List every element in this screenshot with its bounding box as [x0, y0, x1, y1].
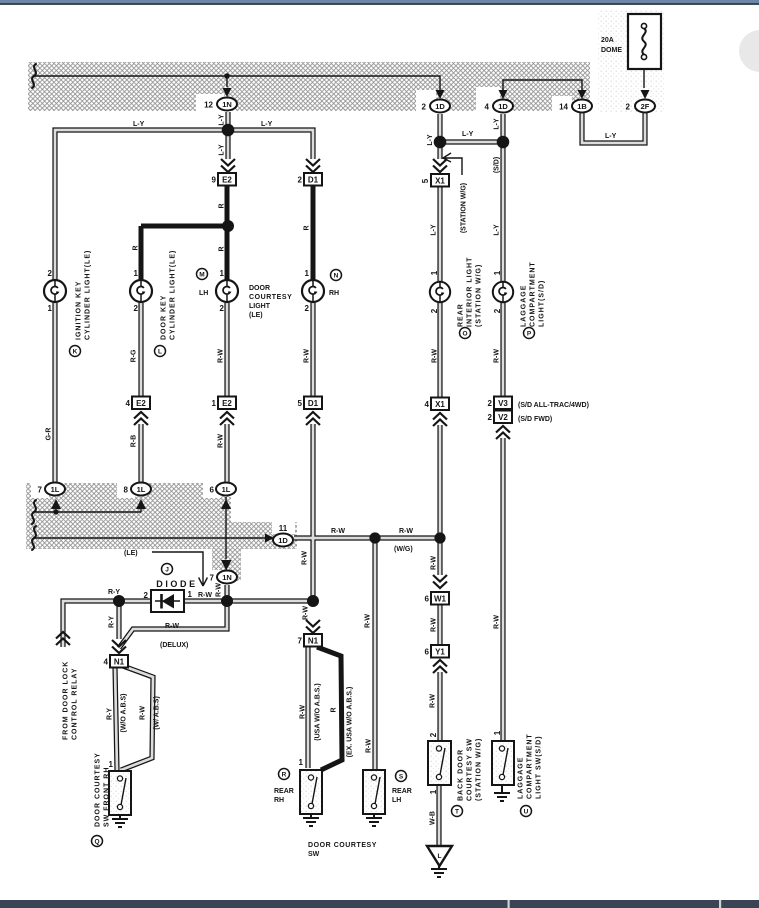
svg-text:(USA W/O A.B.S.): (USA W/O A.B.S.): [315, 683, 322, 740]
svg-text:R: R: [219, 203, 226, 208]
svg-text:(S/D FWD): (S/D FWD): [518, 416, 552, 423]
svg-text:SW: SW: [308, 851, 320, 858]
svg-text:COMPARTMENT: COMPARTMENT: [527, 733, 534, 799]
svg-text:2: 2: [430, 308, 439, 313]
svg-text:E2: E2: [136, 399, 146, 408]
svg-text:2: 2: [134, 304, 139, 313]
svg-text:M: M: [199, 272, 204, 279]
svg-text:1: 1: [299, 758, 304, 767]
svg-text:COURTESY SW: COURTESY SW: [467, 738, 474, 801]
svg-text:R-W: R-W: [431, 556, 438, 570]
svg-text:R-W: R-W: [303, 606, 310, 620]
svg-text:(DELUX): (DELUX): [160, 642, 188, 649]
svg-text:U: U: [524, 809, 529, 816]
svg-text:P: P: [527, 331, 532, 338]
svg-text:20A: 20A: [601, 37, 614, 44]
svg-text:CYLINDER LIGHT(LE): CYLINDER LIGHT(LE): [170, 250, 177, 340]
svg-text:1: 1: [305, 269, 310, 278]
svg-text:5: 5: [298, 399, 303, 408]
svg-text:LAGGAGE: LAGGAGE: [518, 757, 525, 799]
svg-text:14: 14: [559, 103, 568, 112]
svg-text:(LE): (LE): [124, 550, 138, 557]
svg-text:L-Y: L-Y: [219, 114, 226, 126]
svg-text:1B: 1B: [577, 102, 587, 111]
svg-text:(STATION W/G): (STATION W/G): [461, 183, 468, 233]
svg-text:K: K: [73, 349, 78, 356]
svg-text:7: 7: [210, 574, 215, 583]
svg-text:R-Y: R-Y: [108, 589, 120, 596]
svg-text:R: R: [304, 225, 311, 230]
svg-text:V3: V3: [498, 399, 508, 408]
svg-text:DOOR COURTESY: DOOR COURTESY: [308, 842, 377, 849]
svg-text:L: L: [438, 853, 442, 860]
svg-text:R-W: R-W: [218, 434, 225, 448]
svg-text:N1: N1: [308, 637, 319, 646]
svg-text:R-W: R-W: [365, 614, 372, 628]
svg-text:6: 6: [425, 595, 430, 604]
svg-text:R-W: R-W: [302, 551, 309, 565]
svg-text:LIGHT(S/D): LIGHT(S/D): [539, 280, 546, 327]
svg-text:LIGHT SW(S/D): LIGHT SW(S/D): [536, 735, 543, 799]
svg-text:1D: 1D: [498, 102, 508, 111]
svg-text:1: 1: [493, 270, 502, 275]
svg-text:4: 4: [126, 399, 131, 408]
svg-text:FROM DOOR LOCK: FROM DOOR LOCK: [63, 661, 70, 740]
svg-text:R-Y: R-Y: [107, 708, 114, 720]
svg-text:2F: 2F: [641, 102, 650, 111]
svg-text:LIGHT: LIGHT: [249, 303, 271, 310]
svg-text:S: S: [399, 774, 404, 781]
svg-text:L: L: [158, 349, 162, 356]
svg-text:11: 11: [279, 524, 288, 533]
svg-text:2: 2: [626, 103, 631, 112]
svg-text:SW FRONT RH: SW FRONT RH: [104, 767, 111, 827]
svg-text:2: 2: [488, 399, 493, 408]
svg-text:6: 6: [210, 486, 215, 495]
svg-text:1: 1: [134, 269, 139, 278]
svg-text:CYLINDER LIGHT(LE): CYLINDER LIGHT(LE): [85, 250, 92, 340]
svg-text:R: R: [219, 246, 226, 251]
svg-text:L-Y: L-Y: [431, 224, 438, 236]
svg-text:1: 1: [188, 590, 193, 599]
svg-text:L-Y: L-Y: [133, 121, 145, 128]
svg-text:R-W: R-W: [331, 528, 345, 535]
svg-text:4: 4: [425, 400, 430, 409]
svg-text:12: 12: [204, 101, 213, 110]
svg-text:2: 2: [48, 269, 53, 278]
svg-text:1D: 1D: [435, 102, 445, 111]
svg-text:2: 2: [298, 176, 303, 185]
svg-text:2: 2: [429, 732, 438, 737]
svg-text:2: 2: [144, 591, 149, 600]
svg-text:(S/D ALL-TRAC/4WD): (S/D ALL-TRAC/4WD): [518, 402, 589, 409]
svg-text:7: 7: [298, 637, 303, 646]
svg-text:1N: 1N: [222, 573, 232, 582]
svg-text:7: 7: [38, 486, 43, 495]
svg-text:L-Y: L-Y: [605, 133, 617, 140]
svg-text:9: 9: [212, 176, 217, 185]
svg-text:(W/O A.B.S): (W/O A.B.S): [121, 693, 128, 732]
svg-text:R-Y: R-Y: [109, 616, 116, 628]
svg-text:LAGGAGE: LAGGAGE: [521, 285, 528, 327]
svg-text:(STATION W/G): (STATION W/G): [476, 738, 483, 801]
svg-text:INTERIOR LIGHT: INTERIOR LIGHT: [467, 257, 474, 327]
svg-text:Y1: Y1: [435, 648, 445, 657]
svg-text:DOOR COURTESY: DOOR COURTESY: [95, 752, 102, 827]
svg-text:1: 1: [220, 269, 225, 278]
svg-text:R-W: R-W: [399, 528, 413, 535]
svg-text:D1: D1: [308, 176, 319, 185]
svg-text:DOOR: DOOR: [249, 285, 270, 292]
svg-text:R: R: [282, 772, 287, 779]
svg-text:1N: 1N: [222, 100, 232, 109]
svg-text:T: T: [455, 809, 459, 816]
svg-text:2: 2: [493, 308, 502, 313]
svg-text:N1: N1: [114, 658, 125, 667]
svg-text:1: 1: [493, 730, 502, 735]
svg-text:X1: X1: [435, 400, 445, 409]
svg-text:CONTROL RELAY: CONTROL RELAY: [72, 667, 79, 740]
svg-text:R-W: R-W: [216, 583, 223, 597]
svg-text:E2: E2: [222, 176, 232, 185]
svg-text:1: 1: [212, 399, 217, 408]
svg-text:R-W: R-W: [432, 349, 439, 363]
svg-text:8: 8: [124, 486, 129, 495]
svg-text:R-W: R-W: [140, 706, 147, 720]
svg-text:R-W: R-W: [494, 615, 501, 629]
svg-text:4: 4: [104, 658, 109, 667]
svg-text:5: 5: [421, 178, 430, 183]
svg-text:R-W: R-W: [300, 705, 307, 719]
svg-text:V2: V2: [498, 413, 508, 422]
svg-text:R-W: R-W: [430, 694, 437, 708]
svg-text:O: O: [462, 331, 467, 338]
svg-text:R-W: R-W: [431, 618, 438, 632]
svg-text:R-G: R-G: [131, 349, 138, 362]
svg-text:RH: RH: [274, 797, 284, 804]
svg-text:2: 2: [305, 304, 310, 313]
svg-text:L-Y: L-Y: [494, 224, 501, 236]
svg-text:(W/ A.B.S): (W/ A.B.S): [154, 696, 161, 730]
svg-text:BACK DOOR: BACK DOOR: [458, 749, 465, 801]
svg-text:D1: D1: [308, 399, 319, 408]
svg-text:L-Y: L-Y: [427, 134, 434, 146]
svg-text:RH: RH: [329, 290, 339, 297]
svg-text:1: 1: [429, 789, 438, 794]
svg-text:R-W: R-W: [198, 592, 212, 599]
svg-text:W1: W1: [434, 595, 447, 604]
svg-text:DOME: DOME: [601, 47, 622, 54]
svg-text:N: N: [334, 273, 339, 280]
svg-text:G-R: G-R: [46, 428, 53, 441]
svg-text:R-W: R-W: [165, 623, 179, 630]
svg-text:COURTESY: COURTESY: [249, 294, 292, 301]
svg-text:(STATION W/G): (STATION W/G): [476, 264, 483, 327]
svg-text:E2: E2: [222, 399, 232, 408]
svg-text:X1: X1: [435, 177, 445, 186]
svg-text:R-W: R-W: [494, 349, 501, 363]
svg-text:1L: 1L: [51, 485, 60, 494]
svg-text:R: R: [331, 707, 338, 712]
svg-text:1: 1: [430, 270, 439, 275]
svg-text:1: 1: [48, 304, 53, 313]
svg-text:DOOR KEY: DOOR KEY: [161, 295, 168, 340]
svg-text:L-Y: L-Y: [261, 121, 273, 128]
svg-text:J: J: [165, 567, 169, 574]
svg-text:Q: Q: [94, 839, 99, 846]
svg-text:COMPARTMENT: COMPARTMENT: [530, 261, 537, 327]
svg-text:1L: 1L: [137, 485, 146, 494]
svg-text:(EX. USA W/O A.B.S.): (EX. USA W/O A.B.S.): [347, 687, 354, 758]
svg-text:R: R: [133, 245, 140, 250]
svg-text:6: 6: [425, 648, 430, 657]
svg-text:L-Y: L-Y: [494, 118, 501, 130]
svg-text:R-W: R-W: [366, 739, 373, 753]
svg-text:W-B: W-B: [430, 811, 437, 825]
svg-text:IGNITION KEY: IGNITION KEY: [76, 281, 83, 340]
svg-text:R-W: R-W: [218, 349, 225, 363]
svg-text:R-B: R-B: [131, 435, 138, 447]
svg-text:DIODE: DIODE: [156, 579, 198, 589]
svg-text:REAR: REAR: [458, 303, 465, 327]
svg-text:L-Y: L-Y: [219, 144, 226, 156]
svg-text:REAR: REAR: [392, 788, 412, 795]
svg-text:1D: 1D: [278, 536, 288, 545]
svg-text:2: 2: [488, 413, 493, 422]
svg-text:REAR: REAR: [274, 788, 294, 795]
svg-text:R-W: R-W: [304, 349, 311, 363]
svg-text:LH: LH: [199, 290, 208, 297]
svg-text:4: 4: [485, 103, 490, 112]
svg-text:(LE): (LE): [249, 312, 263, 319]
svg-text:(S/D): (S/D): [494, 157, 501, 173]
svg-text:2: 2: [422, 103, 427, 112]
svg-text:L-Y: L-Y: [462, 131, 474, 138]
svg-text:1L: 1L: [222, 485, 231, 494]
svg-text:LH: LH: [392, 797, 401, 804]
svg-text:(W/G): (W/G): [394, 546, 413, 553]
svg-text:2: 2: [220, 304, 225, 313]
